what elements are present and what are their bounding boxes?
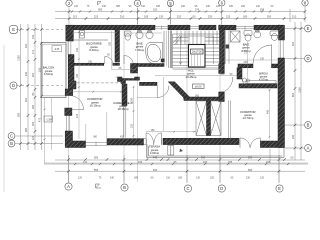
svg-text:300: 300 [24, 97, 28, 102]
svg-text:280: 280 [24, 127, 28, 132]
svg-text:385: 385 [94, 156, 99, 160]
svg-text:130: 130 [31, 34, 35, 39]
svg-text:-0.05: -0.05 [54, 49, 60, 51]
svg-text:B: B [10, 141, 13, 146]
svg-text:300: 300 [291, 41, 295, 46]
svg-text:240: 240 [76, 47, 79, 52]
svg-text:160: 160 [31, 121, 35, 126]
svg-text:240: 240 [24, 71, 28, 76]
svg-text:320: 320 [24, 43, 28, 48]
svg-text:E: E [278, 186, 281, 191]
svg-text:120: 120 [208, 129, 213, 132]
svg-text:1185: 1185 [17, 55, 21, 61]
svg-text:290: 290 [267, 15, 272, 19]
svg-text:150: 150 [153, 8, 158, 12]
svg-text:190: 190 [260, 57, 265, 60]
svg-text:185: 185 [156, 5, 161, 8]
svg-text:170: 170 [31, 49, 35, 54]
svg-text:19x17/28: 19x17/28 [192, 51, 203, 54]
svg-text:16.15mp: 16.15mp [90, 104, 101, 108]
svg-text:310: 310 [141, 5, 146, 8]
svg-text:185: 185 [76, 73, 79, 78]
svg-text:555: 555 [94, 168, 99, 172]
svg-text:465: 465 [266, 109, 269, 114]
svg-text:7.30mp: 7.30mp [135, 48, 145, 52]
svg-text:D: D [220, 186, 223, 191]
svg-text:130: 130 [159, 15, 164, 19]
svg-text:120: 120 [74, 5, 79, 8]
svg-text:630: 630 [153, 168, 158, 172]
svg-text:210: 210 [256, 5, 261, 8]
svg-text:18.35mp: 18.35mp [118, 107, 129, 111]
svg-text:380: 380 [93, 136, 98, 139]
svg-text:4.07mp: 4.07mp [259, 78, 269, 82]
svg-text:185: 185 [144, 15, 149, 19]
svg-text:290: 290 [241, 5, 246, 8]
svg-text:470: 470 [76, 113, 79, 118]
svg-text:125: 125 [260, 177, 265, 180]
svg-text:590: 590 [248, 168, 253, 172]
svg-text:±0.00: ±0.00 [195, 85, 202, 89]
svg-text:220: 220 [181, 5, 186, 8]
svg-text:385: 385 [116, 5, 121, 8]
svg-text:425: 425 [120, 136, 125, 139]
svg-text:245: 245 [138, 160, 143, 164]
svg-text:130: 130 [168, 5, 173, 8]
svg-text:210: 210 [292, 15, 297, 19]
svg-text:330: 330 [88, 60, 93, 63]
svg-text:E: E [307, 26, 310, 31]
svg-text:180: 180 [243, 15, 248, 19]
svg-text:225: 225 [244, 61, 249, 64]
svg-text:14.73mp: 14.73mp [243, 116, 254, 120]
svg-text:B: B [307, 123, 310, 128]
svg-text:4.50mp: 4.50mp [44, 72, 54, 76]
svg-text:120: 120 [31, 135, 35, 140]
svg-text:580: 580 [17, 112, 21, 117]
svg-text:D: D [306, 56, 309, 61]
svg-text:385: 385 [98, 8, 103, 12]
svg-text:230: 230 [208, 15, 213, 19]
svg-text:125: 125 [216, 5, 221, 8]
svg-text:120: 120 [78, 177, 83, 180]
svg-text:C: C [10, 134, 13, 139]
svg-text:A: A [67, 184, 70, 189]
svg-text:125: 125 [226, 15, 231, 19]
svg-text:385: 385 [134, 177, 139, 180]
svg-text:230: 230 [291, 134, 295, 139]
svg-text:180: 180 [229, 5, 234, 8]
svg-text:115: 115 [73, 15, 78, 19]
svg-text:218: 218 [244, 49, 247, 54]
svg-text:310: 310 [120, 15, 125, 19]
svg-text:230: 230 [246, 177, 251, 180]
svg-text:300: 300 [31, 72, 35, 77]
svg-text:220: 220 [177, 15, 182, 19]
svg-text:225: 225 [94, 15, 99, 19]
svg-text:A: A [307, 146, 310, 151]
svg-text:6.40mp: 6.40mp [89, 48, 99, 52]
svg-text:130: 130 [196, 177, 201, 180]
svg-text:330: 330 [109, 41, 112, 46]
svg-text:225: 225 [130, 123, 133, 128]
svg-text:240: 240 [110, 177, 115, 180]
svg-text:E: E [12, 27, 15, 32]
svg-text:365: 365 [195, 94, 200, 97]
svg-text:230: 230 [206, 5, 211, 8]
svg-text:B: B [123, 185, 126, 190]
svg-text:4.00mp: 4.00mp [150, 151, 160, 155]
svg-text:376: 376 [195, 8, 200, 12]
svg-text:180: 180 [31, 104, 35, 109]
svg-text:220: 220 [210, 177, 215, 180]
svg-text:240: 240 [102, 5, 107, 8]
svg-text:665: 665 [291, 92, 295, 97]
svg-text:150: 150 [151, 129, 156, 132]
svg-text:1195: 1195 [297, 87, 301, 93]
svg-text:120: 120 [83, 160, 88, 164]
svg-text:290: 290 [130, 97, 133, 102]
svg-text:C: C [186, 186, 189, 191]
svg-text:D: D [12, 83, 15, 88]
svg-text:310: 310 [166, 177, 171, 180]
svg-text:185: 185 [178, 177, 183, 180]
